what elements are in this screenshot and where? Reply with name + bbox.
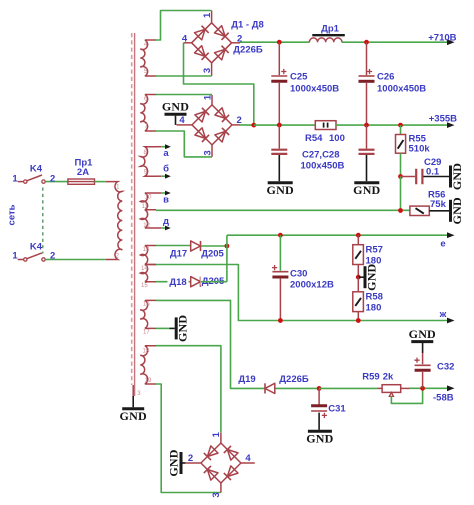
ground right of C29 [449, 166, 452, 188]
svg-text:Д1 - Д8: Д1 - Д8 [231, 19, 264, 30]
capacitor C27 [278, 125, 280, 148]
svg-text:Д19: Д19 [238, 374, 255, 385]
wire R59 wiper loop [391, 388, 422, 403]
junction D17 D18 node [225, 244, 230, 249]
ground under C31 [308, 430, 332, 433]
ground under C28 [354, 181, 379, 184]
svg-text:18: 18 [143, 349, 150, 355]
svg-text:GND: GND [450, 197, 464, 224]
svg-text:Др1: Др1 [321, 24, 340, 35]
svg-text:C32: C32 [437, 362, 454, 373]
resistor R56 [410, 206, 429, 215]
svg-text:17: 17 [143, 330, 150, 336]
junction R55 top [398, 123, 403, 128]
svg-text:2: 2 [50, 251, 55, 262]
wire -58 rail [410, 387, 451, 389]
transformer pin 3 lead [132, 385, 134, 396]
svg-text:100x450В: 100x450В [301, 160, 345, 171]
svg-text:Д18: Д18 [169, 277, 186, 288]
junction C27 top [277, 123, 282, 128]
choke Dr1 [309, 38, 342, 42]
wire R55 to C29 node [400, 153, 402, 176]
svg-text:3: 3 [203, 150, 214, 155]
svg-text:14: 14 [141, 266, 148, 272]
resistor R54 [315, 121, 336, 130]
svg-text:3: 3 [211, 492, 222, 497]
ground at bridge3 pin2 [183, 462, 186, 464]
wire bridge1 pin4 to +355 rail [184, 43, 254, 125]
wire winding6 to bridge2 pin1 [156, 94, 212, 96]
svg-text:Д226Б: Д226Б [233, 44, 263, 55]
svg-text:180: 180 [366, 302, 382, 313]
junction C31 [317, 386, 322, 391]
wire winding10 output [156, 192, 161, 194]
transformer winding 6-7 [140, 95, 156, 132]
capacitor C32 [422, 343, 424, 353]
bridge2 pin3 stub [211, 145, 213, 157]
junction R56 [398, 208, 403, 213]
junction C29 [398, 174, 403, 179]
svg-text:2А: 2А [77, 167, 89, 178]
junction C30 bottom [278, 318, 283, 323]
svg-text:Д17: Д17 [170, 249, 187, 260]
wire winding13 to D17 [156, 245, 190, 247]
bridge1 pin1 stub [211, 11, 213, 23]
junction C26 top [364, 40, 369, 45]
svg-text:GND: GND [120, 409, 147, 423]
svg-text:16: 16 [143, 302, 150, 308]
wire winding12 output [156, 227, 161, 229]
wire +710 rail right [342, 41, 451, 43]
junction +355 left [251, 123, 256, 128]
switch linkage dashed [42, 188, 44, 254]
svg-text:C26: C26 [377, 72, 394, 83]
svg-text:R58: R58 [366, 291, 383, 302]
ground right of R57 R58 [364, 266, 367, 288]
svg-text:75k: 75k [430, 199, 447, 210]
ground above C32 [411, 340, 433, 343]
bridge3 pin3 stub [220, 483, 222, 493]
svg-text:510k: 510k [409, 143, 431, 154]
svg-text:2000x12В: 2000x12В [290, 279, 334, 290]
svg-text:19: 19 [145, 378, 152, 384]
transformer primary winding 1-2 [106, 182, 123, 260]
wire pin16 to D19 [156, 300, 265, 388]
svg-text:1: 1 [211, 431, 222, 437]
capacitor C31 [318, 388, 320, 404]
wire e rail [227, 234, 451, 236]
choke core bar [312, 34, 345, 36]
bridge1 pin4 lead [184, 42, 192, 44]
transformer winding 8-9 [140, 147, 156, 177]
svg-text:11: 11 [142, 204, 149, 210]
wire winding7 to bridge2 pin3 [156, 131, 212, 157]
svg-text:GND: GND [267, 183, 294, 197]
bridge2 pin1 stub [211, 95, 213, 105]
wire R57 to mid [357, 265, 359, 278]
ground at winding17 [175, 317, 178, 339]
capacitor C26 [366, 42, 368, 75]
svg-text:2: 2 [50, 173, 55, 184]
wire pin19 down [156, 384, 221, 493]
svg-text:сеть: сеть [7, 204, 18, 225]
wire C31 node to R59 [319, 387, 377, 389]
svg-text:1000x450В: 1000x450В [290, 84, 339, 95]
ground at bridge2 pin4 [175, 116, 177, 125]
bridge1 pin3 stub [211, 63, 213, 76]
transformer winding 13-14-15 [140, 246, 156, 265]
wire D17 to junction [201, 245, 227, 247]
wire pin11 rail [156, 209, 410, 211]
svg-text:C31: C31 [328, 403, 346, 414]
bridge3 pin1 stub [220, 433, 222, 443]
svg-text:K4: K4 [30, 164, 43, 175]
svg-text:Д205: Д205 [201, 249, 224, 260]
wire pin17 to ground [156, 327, 170, 329]
svg-text:R57: R57 [366, 244, 383, 255]
junction R57 top [356, 233, 361, 238]
diode Д19 [265, 383, 275, 393]
transformer winding 16-17 [140, 300, 156, 328]
svg-text:+710В: +710В [428, 32, 456, 43]
wire +355 rail a [254, 124, 315, 126]
wire winding15 to D18 [156, 281, 190, 283]
capacitor C29 [401, 176, 416, 178]
svg-text:1000x450В: 1000x450В [377, 84, 426, 95]
svg-text:3: 3 [202, 68, 213, 73]
svg-text:+355В: +355В [429, 113, 457, 124]
svg-text:C30: C30 [290, 268, 307, 279]
svg-text:GND: GND [162, 100, 189, 114]
transformer winding 18-19 [140, 346, 156, 384]
wire pin14 to zh rail [156, 265, 451, 321]
svg-text:1: 1 [202, 12, 213, 18]
wire D19 to C31 node [275, 387, 319, 389]
wire +710 rail left [240, 41, 309, 43]
svg-text:GND: GND [409, 327, 436, 341]
transformer core solid line [134, 33, 136, 396]
junction C32 [420, 386, 425, 391]
ground under transformer [122, 407, 144, 410]
svg-text:C25: C25 [290, 72, 308, 83]
ground right of R56 [449, 200, 452, 222]
wire D18 node vertical [226, 246, 228, 282]
svg-text:GND: GND [450, 163, 464, 190]
svg-text:GND: GND [365, 263, 379, 290]
bridge3 pin4 lead [241, 462, 255, 464]
transformer winding 4-5 [140, 40, 156, 76]
svg-text:4: 4 [182, 33, 188, 44]
wire C29 node to R56 node [400, 177, 402, 211]
resistor R55 [400, 125, 402, 134]
svg-text:R59: R59 [362, 372, 379, 383]
wire mid to ground [358, 276, 363, 278]
wire +355 rail b [336, 124, 451, 126]
capacitor C25 [278, 42, 280, 75]
svg-text:д: д [163, 216, 169, 227]
svg-text:е: е [440, 239, 445, 250]
svg-text:а: а [163, 148, 169, 159]
svg-text:GND: GND [353, 183, 380, 197]
bridge2 pin4 lead [177, 124, 193, 126]
svg-text:R54: R54 [305, 133, 323, 144]
wire bridge2 pin2 to junction [240, 124, 254, 126]
bridge2 pin2 lead [232, 124, 240, 126]
svg-text:1: 1 [12, 173, 18, 184]
wire R56 to ground [429, 210, 449, 212]
svg-text:-58В: -58В [433, 393, 454, 404]
svg-text:100: 100 [329, 133, 345, 144]
capacitor C28 [366, 125, 368, 148]
wire D18 to vertical [201, 281, 227, 283]
svg-text:4: 4 [245, 453, 251, 464]
fuse Pr1 2A [68, 179, 95, 184]
ground under C27 [268, 181, 293, 184]
diode Д17 [191, 241, 201, 251]
wire winding5 to bridge1 pin3 [156, 75, 212, 77]
bridge1 pin2 lead [232, 42, 240, 44]
svg-text:2k: 2k [383, 372, 394, 383]
svg-text:0.1: 0.1 [426, 166, 440, 177]
wire winding8 output [156, 146, 161, 148]
bridge rectifier middle [192, 105, 232, 145]
bridge rectifier D1-D8 top [192, 23, 232, 63]
label Д18 [168, 277, 189, 287]
junction C28 top [364, 123, 369, 128]
svg-text:Д226Б: Д226Б [279, 374, 309, 385]
svg-text:1: 1 [12, 251, 18, 262]
label Д205 of Д18 [201, 277, 226, 286]
switch K4 upper pole [18, 181, 24, 183]
wire R58 to zh rail [357, 312, 359, 321]
bridge rectifier bottom [201, 443, 241, 483]
wire fuse to transformer [95, 181, 106, 183]
junction C25 top [277, 40, 282, 45]
svg-text:15: 15 [141, 283, 148, 289]
svg-text:4: 4 [179, 115, 185, 126]
svg-text:13: 13 [143, 247, 150, 253]
resistor R58 [357, 277, 359, 292]
svg-text:ж: ж [439, 309, 447, 320]
transformer core dashed line [131, 33, 133, 385]
capacitor C30 [279, 235, 281, 271]
svg-text:2: 2 [188, 453, 193, 464]
wire pin18 down [156, 346, 221, 433]
junction R57 R58 mid [356, 275, 361, 280]
svg-text:C27,C28: C27,C28 [302, 150, 340, 161]
svg-text:в: в [163, 194, 169, 205]
svg-text:K4: K4 [30, 242, 43, 253]
switch K4 lower pole [18, 259, 24, 261]
svg-text:б: б [163, 164, 169, 175]
svg-text:12: 12 [143, 223, 150, 229]
junction C30 top [278, 233, 283, 238]
wire winding4 to bridge1 pin1 [156, 11, 212, 41]
transformer winding 10-11-12 [140, 193, 156, 210]
svg-text:GND: GND [306, 432, 333, 446]
svg-text:GND: GND [167, 449, 181, 476]
diode Д18 [191, 277, 201, 287]
junction R58 bottom [356, 318, 361, 323]
svg-text:GND: GND [176, 315, 190, 342]
potentiometer R59 [377, 387, 382, 389]
svg-text:10: 10 [145, 195, 152, 201]
wire winding9 output [156, 175, 161, 177]
bridge3 pin2 lead [185, 462, 201, 464]
wire junction up to e rail [226, 235, 228, 246]
resistor R57 [357, 235, 359, 245]
